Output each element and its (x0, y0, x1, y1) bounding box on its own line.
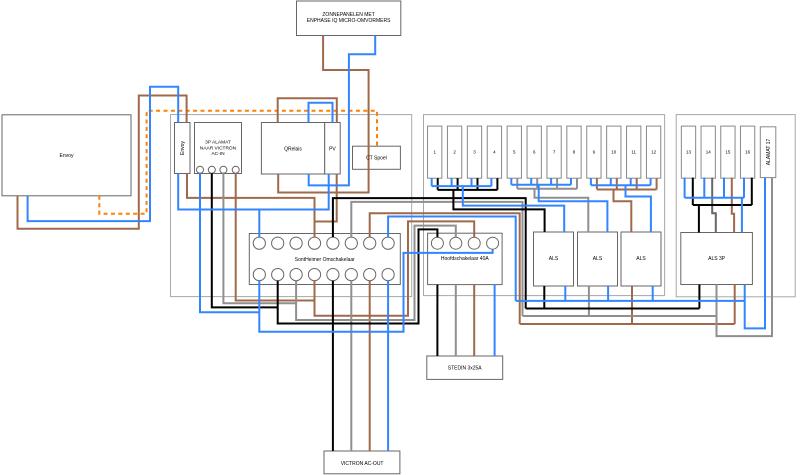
svg-text:12: 12 (651, 150, 657, 155)
svg-text:16: 16 (745, 150, 751, 155)
svg-text:ALS 3P: ALS 3P (708, 256, 726, 262)
svg-text:PV: PV (329, 147, 336, 153)
svg-text:ALS: ALS (593, 256, 603, 262)
svg-text:VICTRON AC-OUT: VICTRON AC-OUT (341, 461, 384, 467)
svg-text:13: 13 (686, 150, 692, 155)
svg-text:3P ALAMAT: 3P ALAMAT (205, 140, 231, 146)
svg-text:CT Spoel: CT Spoel (366, 156, 387, 162)
svg-text:Envoy: Envoy (60, 153, 74, 159)
svg-text:Envoy: Envoy (180, 141, 186, 155)
svg-text:ALAMAT 17: ALAMAT 17 (766, 139, 772, 166)
svg-text:15: 15 (725, 150, 731, 155)
svg-text:STEDIN 3x25A: STEDIN 3x25A (448, 366, 483, 372)
svg-text:ALS: ALS (636, 256, 646, 262)
svg-text:SontHeimer Omschakelaar: SontHeimer Omschakelaar (295, 257, 355, 263)
svg-text:ENPHASE IQ MICRO-OMVORMERS: ENPHASE IQ MICRO-OMVORMERS (307, 18, 391, 24)
svg-text:ZONNEPANELEN MET: ZONNEPANELEN MET (322, 12, 374, 18)
svg-text:11: 11 (631, 150, 636, 155)
svg-text:AC-IN: AC-IN (211, 151, 225, 157)
svg-text:NAAR VICTRON: NAAR VICTRON (200, 145, 237, 151)
svg-text:QRelais: QRelais (284, 147, 302, 153)
svg-text:Hoofdschakelaar 40A: Hoofdschakelaar 40A (441, 256, 489, 262)
svg-text:10: 10 (611, 150, 617, 155)
svg-text:14: 14 (706, 150, 712, 155)
svg-text:ALS: ALS (549, 256, 559, 262)
